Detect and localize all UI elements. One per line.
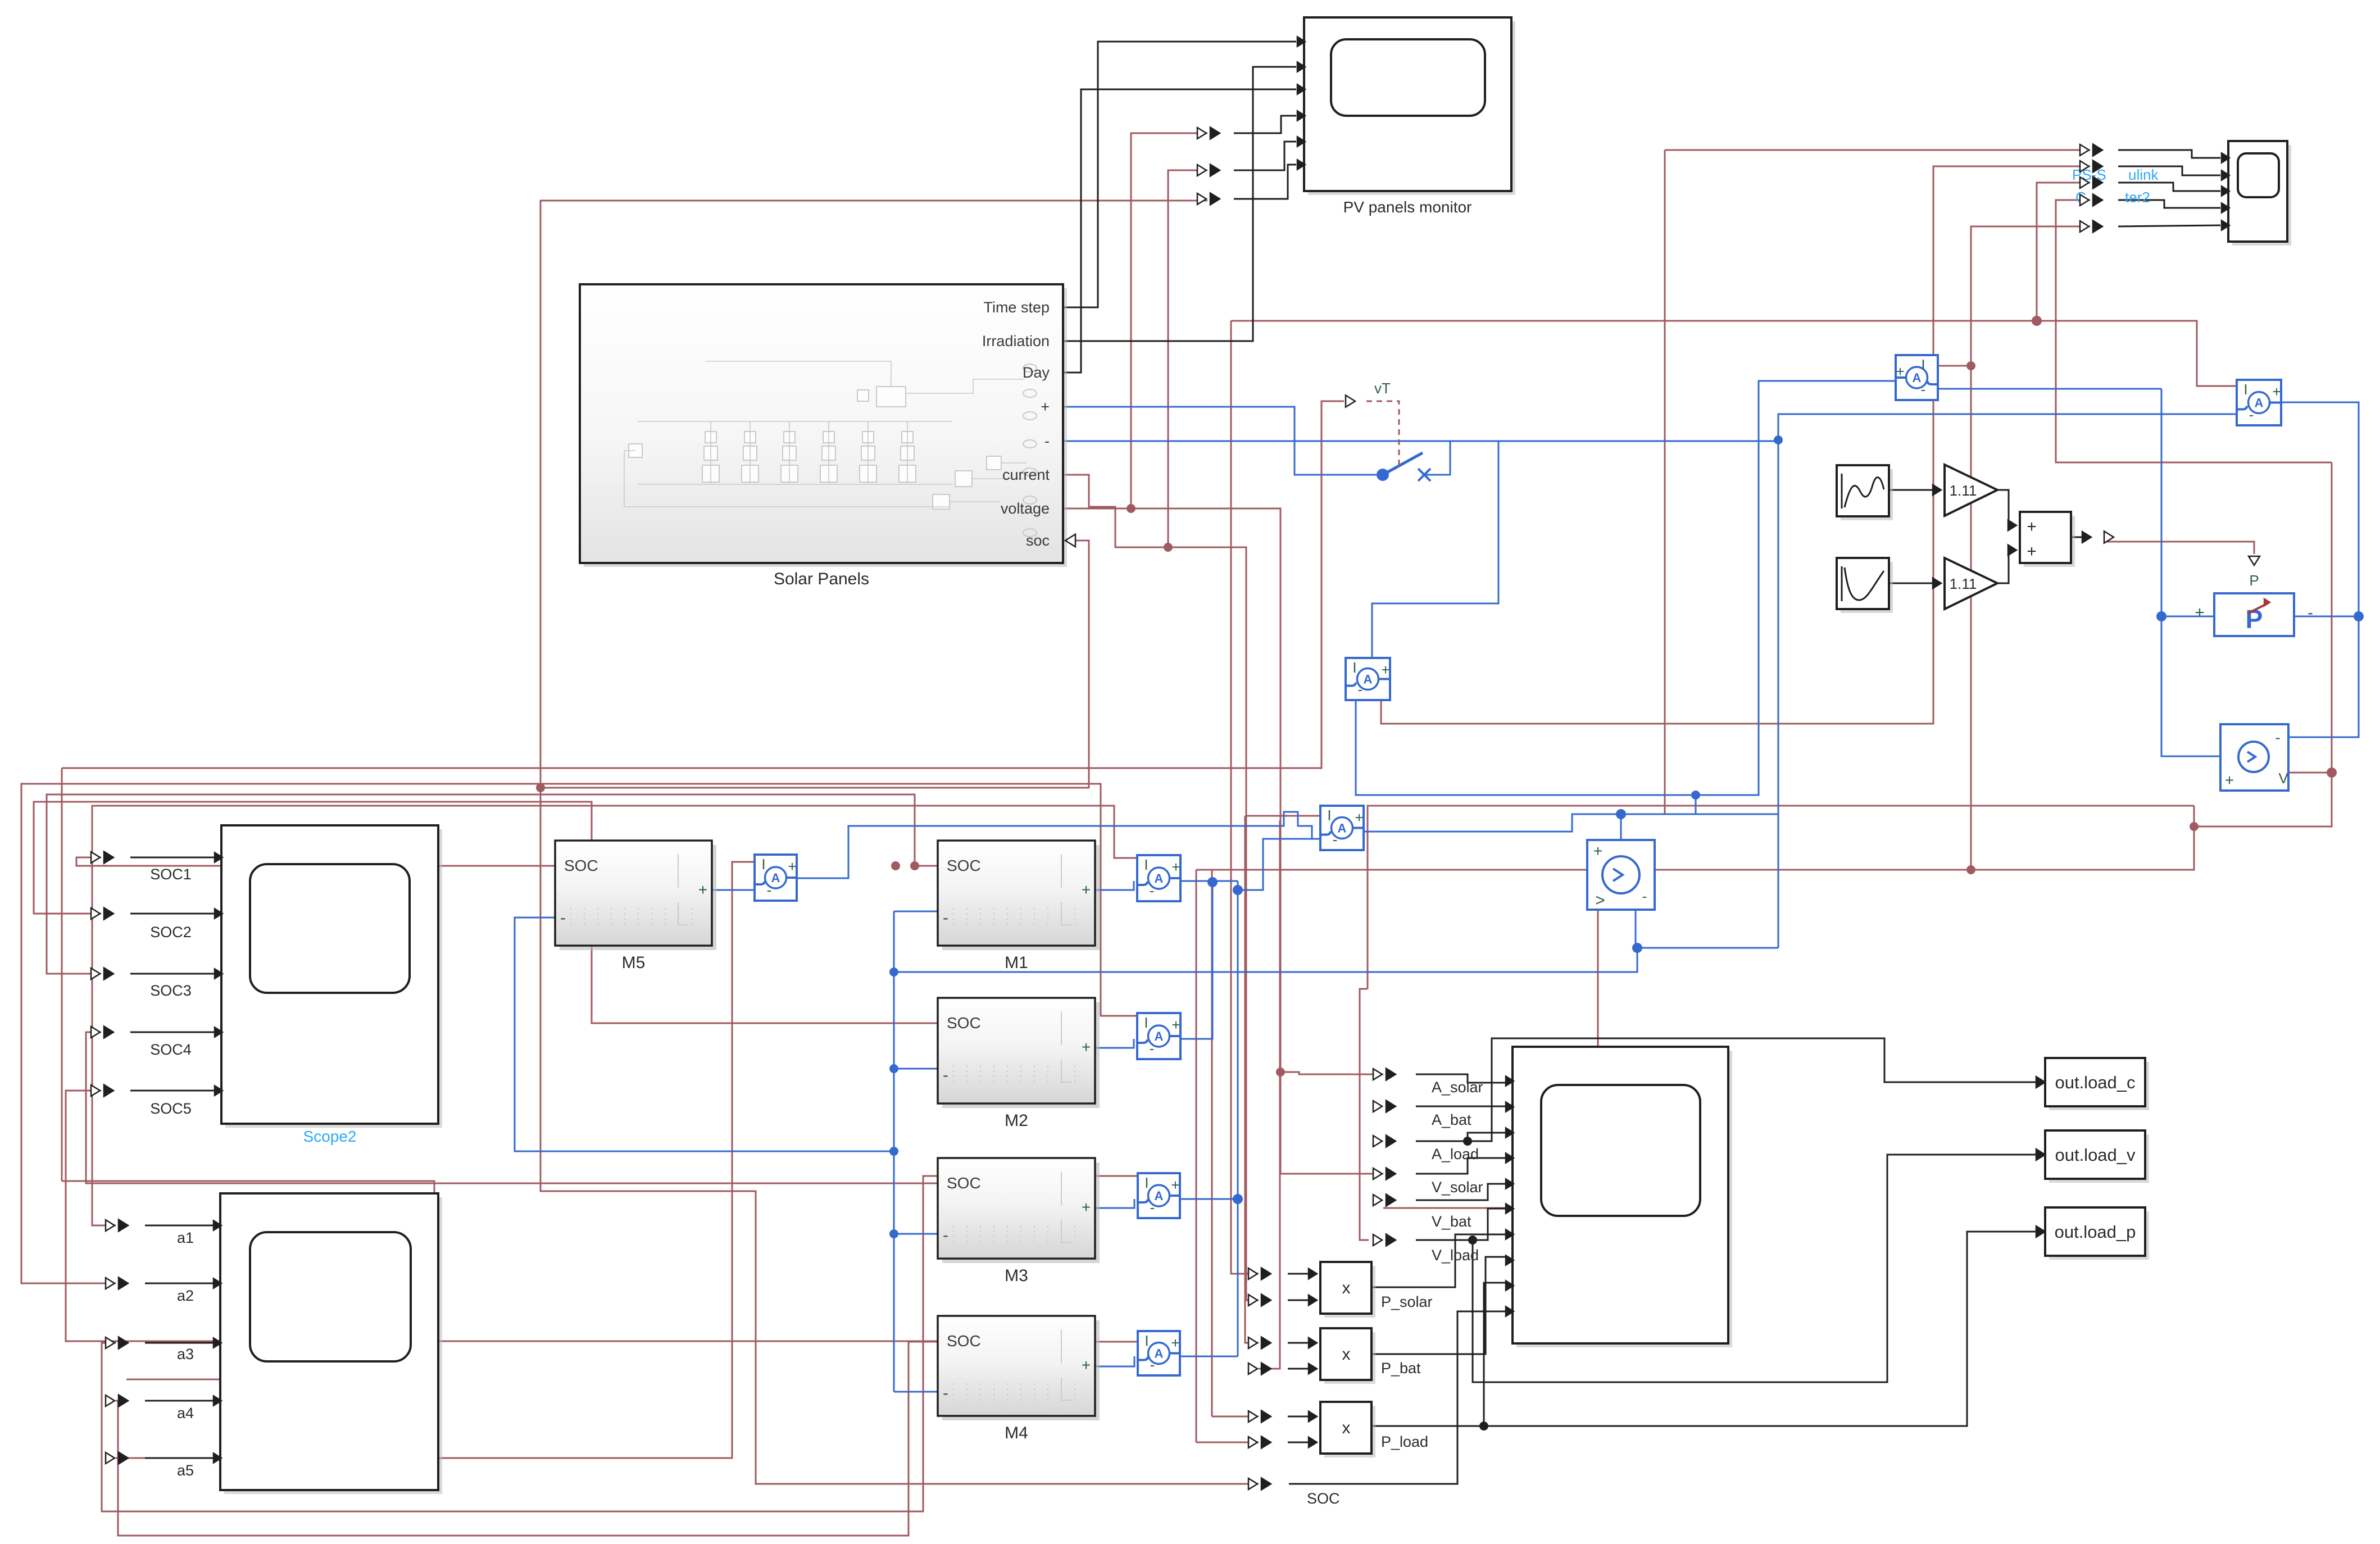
junction voltage (1127, 504, 1136, 513)
svg-text:voltage: voltage (1001, 500, 1050, 517)
wire A_load to out.load_c (1468, 1038, 2042, 1141)
svg-text:SOC: SOC (947, 1332, 981, 1350)
svg-text:PV panels monitor: PV panels monitor (1343, 198, 1472, 216)
junction bus3 (889, 1147, 898, 1156)
svg-text:x: x (1342, 1279, 1351, 1297)
converter pairs PV monitor (1197, 128, 1206, 139)
wire join (1212, 880, 1238, 882)
ammeter A2m (1137, 1013, 1180, 1059)
wire M1 SOC to SOC3 (47, 794, 938, 974)
junction V out (2327, 768, 2337, 778)
wire conn to scope (130, 973, 215, 975)
subsystem M4 (942, 1320, 1100, 1420)
svg-text:+: + (2195, 603, 2205, 622)
svg-text:-: - (2308, 603, 2313, 622)
svg-text:a3: a3 (177, 1346, 194, 1363)
svg-text:-: - (1333, 831, 1338, 848)
svg-text:A: A (1338, 821, 1347, 835)
ammeter A4m (1138, 1331, 1180, 1375)
wire bus to M3 minus (894, 1233, 938, 1235)
junction A out2 (1233, 885, 1243, 895)
wire Time step to monitor (1063, 42, 1296, 307)
svg-text:+: + (1082, 1356, 1091, 1374)
signal source S2 (1841, 562, 1893, 613)
converter pairs big scope inputs (1373, 1069, 1382, 1080)
junction v trunk (1276, 1068, 1285, 1077)
junction bus2 (889, 1064, 898, 1073)
wire switch out (1424, 441, 1450, 475)
wire Asolar I out (1937, 365, 1971, 367)
wire vT left trunk (61, 768, 63, 1181)
converter pairs products (1248, 1268, 1257, 1279)
junction current (1164, 543, 1173, 552)
ammeter Asolar (1896, 355, 1938, 400)
junction P_load (1479, 1422, 1488, 1431)
svg-text:P_bat: P_bat (1381, 1360, 1421, 1377)
wire V out up (2331, 462, 2333, 773)
wire conn to scope (130, 1090, 215, 1092)
svg-text:SOC2: SOC2 (150, 924, 192, 941)
svg-text:Irradiation: Irradiation (982, 333, 1050, 349)
wire V_solar in (1416, 1158, 1506, 1174)
wire Irradiation to monitor (1063, 67, 1296, 341)
svg-text:-: - (1150, 1356, 1155, 1373)
svg-text:+: + (2027, 542, 2037, 561)
junction rail tap (1774, 435, 1783, 444)
wire P_bat out to scope (1371, 1257, 1506, 1354)
wire P sensor minus (2294, 616, 2359, 617)
svg-text:A: A (1155, 1347, 1164, 1361)
svg-text:I: I (761, 856, 765, 873)
wire V1 out to V_bat (1383, 910, 1598, 1208)
wire left blue vertical (2161, 389, 2163, 616)
wire rail to A3 meter (1372, 441, 1498, 658)
svg-text:I: I (1144, 1332, 1148, 1349)
svg-text:+: + (1355, 809, 1363, 826)
wire down to V sensor minus (2282, 616, 2359, 747)
converter pairs a-scope (106, 1220, 115, 1231)
svg-text:+: + (1082, 1198, 1091, 1216)
voltage sensor V (2220, 724, 2288, 791)
svg-text:+: + (1041, 398, 1050, 415)
wire sum out to P (2104, 542, 2254, 554)
wire A2 plus down (2281, 402, 2359, 616)
svg-text:-: - (1150, 1040, 1155, 1057)
svg-text:a2: a2 (177, 1287, 194, 1304)
wire into P sensor plus (2161, 616, 2214, 617)
wire to V sensor plus (2161, 616, 2220, 756)
switch breaker (1377, 469, 1389, 481)
wire conn to scope (145, 1400, 214, 1402)
svg-text:out.load_c: out.load_c (2055, 1073, 2135, 1092)
wire current to PV monitor in5 (1168, 170, 1207, 547)
junction V meas (2190, 822, 2199, 831)
svg-text:I: I (1352, 659, 1356, 676)
vT trigger (1346, 395, 1355, 407)
wire plus trunk (1237, 881, 1239, 1356)
svg-text:A_load: A_load (1432, 1146, 1479, 1162)
wire trunk to P_solar in1 (1231, 321, 1259, 1274)
svg-text:out.load_v: out.load_v (2055, 1145, 2136, 1165)
wire M1 plus to A1 (1095, 881, 1134, 890)
power sensor P (2214, 593, 2294, 636)
ammeter A1 (1137, 855, 1180, 901)
junction V_load (1468, 1236, 1477, 1245)
svg-text:SOC: SOC (947, 1014, 981, 1032)
junction M1 SOC b (891, 861, 900, 870)
scope PV panels monitor (1308, 21, 1515, 195)
svg-text:P_solar: P_solar (1381, 1293, 1433, 1310)
wire conv5 to scope (2118, 225, 2220, 226)
wire conv4 to scope (2118, 200, 2220, 208)
wire solar soc to SOC connector (541, 788, 1259, 1484)
P measurement arrow (2249, 556, 2260, 565)
wire V out down-left (1196, 773, 2332, 870)
wire voltage to PV monitor in4 (1131, 133, 1207, 508)
svg-text:A: A (2255, 396, 2264, 410)
wire gain1 to sum (1997, 490, 2013, 525)
svg-text:+: + (1593, 842, 1602, 860)
svg-text:I: I (2243, 381, 2247, 398)
svg-text:V_bat: V_bat (1432, 1213, 1471, 1230)
svg-text:Day: Day (1023, 364, 1050, 381)
ammeter A3 mid (1346, 658, 1390, 700)
wire conv2 to scope (2118, 166, 2220, 175)
out.load_p (2049, 1211, 2149, 1260)
wire A_bat in (1416, 1106, 1506, 1107)
wire conn4 to monitor (1234, 116, 1296, 133)
wire A_load in (1416, 1133, 1506, 1141)
svg-text:-: - (1358, 681, 1363, 698)
wire V1 meas long line (1368, 806, 2194, 989)
svg-text:x: x (1342, 1345, 1351, 1364)
svg-text:-: - (560, 909, 566, 927)
wire M5 minus to bus (515, 918, 894, 1151)
svg-text:A: A (771, 871, 780, 885)
wire V out to converter c4 (2056, 200, 2332, 462)
svg-text:A: A (1913, 371, 1922, 385)
svg-text:+: + (1171, 1177, 1179, 1193)
svg-text:-: - (2249, 406, 2254, 423)
wire solar I to converter c5 (1971, 226, 2090, 366)
wire conn to scope (130, 1032, 215, 1033)
wire M4 SOC to SOC5 (66, 1091, 938, 1341)
junction A out3 (1233, 1194, 1243, 1204)
svg-text:-: - (767, 882, 772, 898)
wire A5 out to A0 (797, 812, 1320, 878)
wire A5 I to a5 (116, 862, 755, 1458)
svg-text:I: I (1144, 856, 1148, 873)
svg-text:-: - (943, 1226, 948, 1245)
wire conn6 to monitor (1234, 165, 1296, 199)
svg-text:a4: a4 (177, 1405, 194, 1422)
wire conv1 to scope (2118, 150, 2220, 158)
svg-text:I: I (1921, 356, 1925, 373)
gain 1.11 upper (1945, 465, 1997, 516)
wire P_load in2 (1288, 1442, 1312, 1443)
out.load_v (2049, 1134, 2149, 1183)
wire conn to scope (130, 857, 215, 859)
wire conn to scope (145, 1457, 214, 1459)
junction blue lower (1691, 791, 1700, 800)
svg-text:a5: a5 (177, 1462, 194, 1479)
gain 1.11 lower (1945, 558, 1997, 609)
wire M2 SOC to SOC2 (34, 802, 938, 1023)
wire V1 minus line (1636, 910, 1778, 948)
scope Scope2 (225, 829, 442, 1128)
wire solar voltage to V_solar (1063, 508, 1383, 1174)
wire to converter c1 (1665, 149, 2090, 151)
svg-text:SOC: SOC (1307, 1490, 1340, 1507)
wire solar I trunk down (1970, 366, 1972, 870)
junction soc branch (536, 783, 545, 792)
wire M3 SOC to SOC4 (86, 1032, 938, 1183)
wire Day to monitor (1063, 89, 1296, 373)
wire A3m out (1180, 1198, 1238, 1200)
wire trunk to A0 in (1238, 839, 1320, 890)
svg-text:M4: M4 (1005, 1424, 1028, 1442)
wire A1 out (1180, 880, 1212, 882)
wire solar current to P_solar in2 (1063, 475, 1259, 1300)
junction bus4 (889, 1229, 898, 1238)
wire P_load branch to scope (1484, 1283, 1506, 1426)
svg-text:+: + (2027, 517, 2037, 536)
wire trunk to P_bat in1 (1245, 816, 1259, 1343)
svg-text:P: P (2249, 572, 2259, 589)
wire rail down to V1 line (1778, 441, 1779, 948)
wire conn5 to monitor (1234, 142, 1296, 170)
wire solar plus to switch (1063, 407, 1378, 475)
wire P_bat in1 (1288, 1342, 1312, 1344)
wire V1 meas riser (2193, 806, 2195, 827)
wire M5 plus to A5 (712, 881, 758, 890)
product P_bat (1324, 1332, 1375, 1384)
wire P_load trunk (1211, 870, 1213, 1416)
wire S2 to gain2 (1889, 583, 1937, 584)
svg-text:-: - (1150, 1199, 1155, 1216)
svg-text:-: - (943, 1066, 948, 1084)
product P_solar (1324, 1266, 1375, 1318)
wire solar minus rail (1063, 441, 1778, 442)
svg-text:V: V (2278, 770, 2288, 787)
svg-text:ter2: ter2 (2125, 189, 2150, 206)
svg-text:M5: M5 (622, 953, 646, 972)
wire to converter c3 (2037, 183, 2090, 321)
wire A2m out to trunk (1180, 881, 1212, 1039)
wire conv3 to scope (2118, 183, 2220, 191)
svg-text:-: - (1921, 381, 1926, 398)
wire sum out (2071, 537, 2086, 538)
junction right (2032, 316, 2042, 326)
svg-text:A: A (1155, 1189, 1164, 1203)
wire conn to scope (145, 1342, 214, 1344)
wire S1 to gain1 (1889, 489, 1937, 491)
wire P_load out to out.load_p (1371, 1232, 2042, 1426)
svg-text:Scope2: Scope2 (303, 1128, 357, 1145)
svg-text:ulink: ulink (2128, 166, 2159, 183)
junction bus1 (889, 968, 898, 977)
junction A_load (1463, 1137, 1472, 1146)
svg-text:A: A (1155, 1029, 1164, 1043)
junction M1 SOC (910, 861, 919, 870)
wire conn to scope (145, 1283, 214, 1284)
svg-text:I: I (1327, 807, 1331, 824)
wire conn to scope (130, 913, 215, 915)
wire solar soc to PV monitor in6 (541, 201, 1207, 788)
out.load_c (2049, 1062, 2149, 1110)
junction V1 minus (1632, 943, 1642, 953)
wire P_load in1 (1288, 1416, 1312, 1418)
svg-text:P_load: P_load (1381, 1433, 1428, 1450)
wire to V1 plus (1620, 814, 1622, 840)
svg-text:M3: M3 (1005, 1266, 1028, 1285)
ammeter A3m (1138, 1173, 1180, 1218)
svg-text:+: + (2272, 383, 2281, 400)
svg-text:out.load_p: out.load_p (2055, 1222, 2136, 1242)
svg-text:a1: a1 (177, 1229, 194, 1246)
svg-text:SOC3: SOC3 (150, 982, 192, 999)
wire A4m out (1180, 1356, 1238, 1357)
wire P_solar in1 (1288, 1273, 1312, 1275)
wire M5 SOC to SOC1 (76, 857, 555, 866)
wire negative bus vertical (893, 911, 895, 1392)
svg-text:I: I (1144, 1174, 1148, 1191)
svg-text:+: + (1082, 1038, 1091, 1056)
junction P plus (2156, 611, 2166, 621)
wire to V_load conn (1360, 989, 1369, 1240)
junction trunk on V loop (1966, 865, 1975, 874)
wire Asolar out to P plus riser (1937, 388, 2161, 390)
wire c1 riser (1664, 150, 1666, 814)
wire to A_solar conn (1280, 1072, 1383, 1074)
wire bus to M2 minus (894, 1068, 938, 1070)
wire A3m I to a3 (102, 1176, 1138, 1511)
svg-text:>: > (1595, 891, 1605, 910)
scope right small (2232, 145, 2291, 246)
svg-text:M1: M1 (1005, 953, 1028, 972)
wire A1 I to a1 (92, 806, 1137, 1225)
svg-text:vT: vT (1374, 380, 1391, 397)
wire trunk v (1196, 870, 1197, 1442)
wire trunk to P_bat in2 (1259, 820, 1280, 1369)
wire jog down (1695, 795, 1697, 814)
wire A2m I to a2 (21, 784, 1137, 1283)
ammeter A2 load current (2237, 380, 2281, 425)
ammeter A5 (755, 855, 797, 901)
svg-text:SOC5: SOC5 (150, 1100, 192, 1117)
scope a-scope (224, 1197, 442, 1494)
svg-text:M2: M2 (1005, 1111, 1028, 1130)
svg-text:SOC: SOC (947, 857, 981, 874)
wire bus to M1 minus (894, 911, 938, 912)
svg-text:SOC4: SOC4 (150, 1041, 192, 1058)
sum block (2024, 516, 2075, 567)
wire A0 out to node (1364, 814, 1778, 832)
svg-text:-: - (943, 909, 948, 927)
wire M4 plus to A4m (1095, 1356, 1134, 1366)
svg-text:+: + (1171, 1016, 1180, 1033)
svg-text:Solar Panels: Solar Panels (774, 570, 869, 588)
svg-text:soc: soc (1026, 532, 1050, 549)
wire rail to A2 input (1778, 414, 2238, 441)
svg-text:-: - (1150, 882, 1155, 899)
svg-text:+: + (1896, 363, 1904, 380)
svg-text:Time step: Time step (983, 299, 1050, 316)
junction A out1 (1207, 877, 1218, 887)
svg-text:PS-S: PS-S (2072, 166, 2106, 183)
wire A0 I out (1245, 815, 1320, 817)
subsystem M1 (942, 845, 1100, 950)
wire P_solar in2 (1288, 1300, 1312, 1301)
svg-text:+: + (698, 881, 707, 898)
svg-text:A_bat: A_bat (1432, 1111, 1471, 1128)
wire trunk to A2 I (1231, 321, 2238, 386)
svg-text:A_solar: A_solar (1432, 1079, 1483, 1096)
subsystem M5 (560, 845, 716, 950)
svg-text:-: - (943, 1384, 948, 1402)
svg-text:+: + (1171, 859, 1180, 875)
port soc input arrow (1065, 534, 1075, 547)
wire V_load to out.load_v (1473, 1155, 2042, 1382)
wire A4m I to a4 (116, 1342, 1138, 1536)
signal source S1 (1841, 469, 1893, 520)
svg-text:+: + (1082, 881, 1091, 898)
junction P minus (2354, 611, 2364, 621)
svg-text:current: current (1002, 466, 1050, 483)
wire bus to M4 minus (894, 1391, 938, 1393)
wire P_solar out to scope (1371, 1234, 1506, 1287)
converter pairs top-right (2080, 144, 2089, 156)
svg-text:+: + (2225, 771, 2234, 789)
svg-text:A: A (1364, 673, 1373, 687)
wire V sensor out (2288, 772, 2332, 774)
svg-text:+: + (788, 858, 796, 875)
wire gain2 to sum (1997, 550, 2013, 583)
wire bus to V1 (894, 948, 1637, 972)
wire V_bat in (1416, 1184, 1506, 1200)
subsystem M3 (942, 1162, 1100, 1263)
svg-text:1.11: 1.11 (1950, 575, 1977, 592)
svg-text:+: + (1381, 661, 1389, 678)
svg-text:SOC1: SOC1 (150, 866, 192, 883)
wire A_solar in (1416, 1074, 1506, 1083)
ammeter A0 battery current (1320, 806, 1364, 850)
wire A3 I to converter c2 (1381, 166, 2090, 724)
scope battery monitor (1516, 1051, 1732, 1347)
wire vT control (62, 401, 1344, 768)
subsystem Solar Panels (584, 288, 1067, 567)
svg-text:-: - (1642, 888, 1647, 905)
subsystem M2 (942, 1002, 1100, 1108)
svg-text:-: - (2275, 729, 2280, 746)
wire loop above a-scope (62, 1181, 434, 1379)
wire A3 to Asolar meter (1356, 381, 1896, 795)
svg-text:SOC: SOC (564, 857, 598, 874)
junction solar I (1966, 361, 1975, 370)
wire to P_load in1 (1212, 1416, 1259, 1418)
svg-text:V_load: V_load (1432, 1247, 1479, 1264)
wire to P_load in2 (1196, 1442, 1259, 1443)
svg-text:A: A (1155, 871, 1164, 885)
product P_load (1324, 1406, 1375, 1457)
voltage sensor V1 battery (1587, 840, 1655, 910)
svg-text:-: - (1044, 433, 1050, 449)
svg-text:1.11: 1.11 (1950, 482, 1977, 499)
wire P_bat in2 (1288, 1368, 1312, 1370)
wire SOC to scope (1289, 1311, 1506, 1484)
svg-text:I: I (1144, 1014, 1148, 1031)
svg-text:V_solar: V_solar (1432, 1179, 1483, 1196)
